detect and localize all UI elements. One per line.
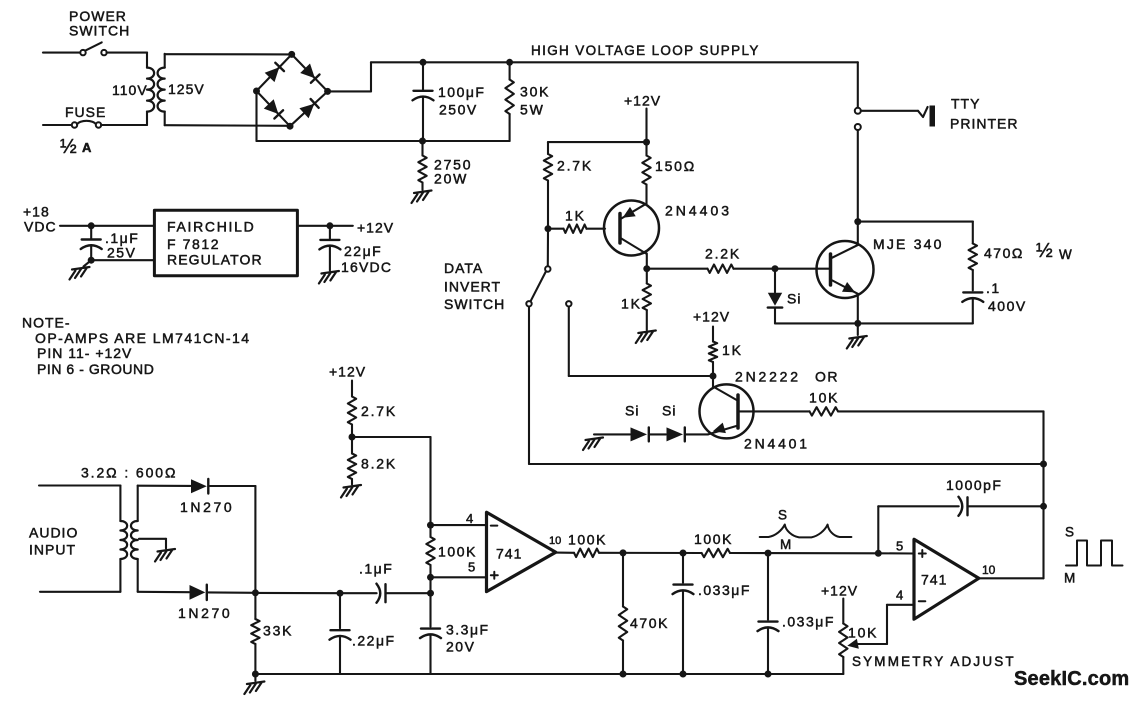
wire pin4 to op1 [431,524,487,526]
label .033uF 1 [698,582,751,598]
svg-text:+12V: +12V [357,220,394,236]
label .1 400V [986,280,1027,314]
transformer T2 secondary [131,486,138,592]
op-amp U2 741 [914,539,979,619]
svg-text:Si: Si [662,403,676,419]
svg-text:S: S [1065,525,1074,540]
ground under 22uF [319,271,339,284]
svg-text:INPUT: INPUT [29,542,76,558]
svg-text:Si: Si [625,403,639,419]
label 470K [630,615,669,631]
node .22uF top [337,590,344,597]
label 2.2K [705,246,741,262]
bridge diode D4 [299,99,318,118]
label 100K input [438,544,477,560]
svg-text:30K: 30K [520,84,550,100]
label HIGH VOLTAGE LOOP SUPPLY [531,43,760,58]
svg-text:10K: 10K [809,390,839,406]
svg-text:3.3μF: 3.3μF [446,622,490,638]
wire fb down [1042,506,1044,578]
node 470K bottom [620,671,627,678]
wire regulator output [297,225,352,227]
resistor 30K 5W [505,62,513,141]
wire pin4 op2 [887,605,914,644]
watermark SeekIC.com [1014,668,1129,690]
wire bridge left to lower bus [255,91,257,141]
node lower bus at 2750 [419,138,426,145]
node bridge right [324,88,331,95]
svg-text:2.7K: 2.7K [361,403,397,419]
label pin 10 op1 [549,535,561,547]
ground under MJE340 [847,336,867,349]
resistor 2.7K mid [348,381,356,438]
diode Si 1 [631,427,649,441]
wire bus node to ground [254,674,256,681]
node bridge left [253,88,260,95]
label S sawtooth [778,508,787,523]
label 150ohm [655,158,696,174]
svg-text:PRINTER: PRINTER [950,116,1018,132]
node 33K bottom [252,671,259,678]
svg-text:.033μF: .033μF [782,614,835,630]
label 100K 2 [694,531,733,547]
svg-text:150Ω: 150Ω [655,158,696,174]
label +12V pot [821,583,858,599]
jack J1 tip contact [855,108,861,114]
wire pin5 to op1 [431,576,487,578]
wire secondary bottom to D6 [138,591,189,594]
node 2N4403 collector [643,265,650,272]
node .033uF 2 bottom [765,671,772,678]
label Si shunt [787,291,801,307]
node MJE emitter ground [854,320,861,327]
svg-text:+12V: +12V [624,93,661,109]
wire D6 to junction [209,591,256,593]
resistor 470ohm 1/2W [969,222,977,291]
resistor 470K [619,553,627,674]
svg-text:NOTE-: NOTE- [22,315,71,331]
svg-text:100K: 100K [568,532,607,548]
wire node to ground [857,323,859,335]
svg-text:.033μF: .033μF [698,582,751,598]
resistor 33K [251,593,259,674]
label pin 5 [468,560,475,575]
svg-text:125V: 125V [168,81,205,97]
node bridge bottom [287,123,294,130]
svg-text:100K: 100K [694,531,733,547]
label DATA INVERT SWITCH [444,260,505,312]
svg-text:SWITCH: SWITCH [444,296,505,312]
node Si diode top [772,265,779,272]
svg-text:1N270: 1N270 [180,499,234,515]
label 1/2 A [60,136,92,158]
wire T1 secondary bottom to bridge [165,124,290,127]
wire AC hot in [43,52,80,54]
wire 1K node to switch contact [547,231,549,266]
wire wiper arrow [847,639,887,649]
label FUSE [65,104,106,120]
node HV at R 30K [506,59,513,66]
label 125V [168,81,205,97]
svg-text:741: 741 [921,572,947,588]
label AUDIO INPUT [29,525,78,558]
svg-text:10: 10 [982,563,996,577]
bottom ground bus [255,673,843,675]
wire op2 out [979,577,1044,579]
capacitor .22uF [330,593,351,674]
svg-text:100μF: 100μF [438,84,485,100]
label 1N270 bottom [178,605,232,621]
wire D5 to right rail [210,485,255,487]
fuse F1 [72,121,101,128]
wire node to 2.7K top [548,142,647,154]
node 150ohm top [643,139,650,146]
svg-text:8.2K: 8.2K [361,456,397,472]
svg-text:470K: 470K [630,615,669,631]
label 110V [112,82,148,98]
label 10K pot [848,625,878,641]
svg-text:33K: 33K [263,623,293,639]
svg-text:INVERT: INVERT [444,279,501,295]
wire cap bottom to regulator [91,259,154,261]
wire 1000pF up [877,506,879,553]
wire emitter bus [775,322,973,324]
jack J1 sleeve contact [855,124,861,130]
resistor 100K 2 [702,549,730,557]
ground center tap [155,549,175,562]
wire down to 1000pF node [1042,464,1044,506]
node 22uF top [326,222,333,229]
svg-text:2.7K: 2.7K [557,158,593,174]
svg-text:20W: 20W [434,171,468,187]
label 3.3uF 20V [446,622,490,655]
ground for Si diodes [583,438,603,451]
node detector junction [252,589,259,596]
svg-text:OP-AMPS ARE LM741CN-14: OP-AMPS ARE LM741CN-14 [35,330,251,346]
svg-text:3.2Ω : 600Ω: 3.2Ω : 600Ω [81,465,177,481]
label pin 4 op2 [896,588,903,603]
svg-text:Si: Si [787,291,801,307]
capacitor 22uF 16VDC [319,226,340,271]
wire ground to diode [594,433,630,435]
svg-text:1K: 1K [722,342,743,358]
wire pin5 into op2 [878,552,914,554]
svg-text:10: 10 [549,535,561,547]
svg-text:TTY: TTY [951,96,980,112]
bridge diode D1 [265,63,284,82]
node HV at C1 [420,59,427,66]
op-amp U1 741 [487,512,556,591]
node 2N2222 base [710,373,717,380]
capacitor 3.3uF 20V [420,593,441,674]
transformer T2 primary [120,486,127,592]
wire op1 out [556,552,574,554]
label M sawtooth [780,537,791,552]
switch S1 power switch [80,42,106,55]
node pin4 rail [427,522,434,529]
wire 100K2 to pin5 node [730,552,878,554]
label 1K to 2N2222 [722,342,743,358]
label SYMMETRY ADJUST [852,654,1016,669]
label pin 10 op2 [982,563,996,577]
label +18 VDC [23,204,57,235]
svg-text:M: M [780,537,791,552]
resistor 100K input [426,525,434,577]
ground under 8.2K [341,485,361,498]
svg-text:110V: 110V [112,82,148,98]
resistor 2.2K [647,265,775,273]
label 2.7K upper [557,158,593,174]
wire 1000pF left segment [878,505,958,507]
wire lower bus [257,140,510,142]
wire between Si diodes [650,433,666,435]
wire Si 2 to emitter [686,433,708,435]
svg-text:W: W [1059,247,1072,262]
label +12V at 1K [693,309,730,325]
bridge diode D2 [300,64,319,83]
diode Si shunt [768,269,782,324]
node M line [765,550,772,557]
label 8.2K [361,456,397,472]
label POWER SWITCH [69,8,130,39]
svg-text:M: M [1064,571,1075,586]
node 10K line at pole line [1040,461,1047,468]
resistor 1K to 2N2222 [709,327,717,377]
label +12V at 150ohm [624,93,661,109]
label 2750 20W [434,157,472,187]
svg-text:2N4401: 2N4401 [744,436,810,452]
transistor Q2 2N2222 [700,376,754,438]
label pin 4 [466,511,473,526]
label .1uF coupling [359,561,393,577]
svg-text:DATA: DATA [444,260,483,276]
wire switch to T1 primary [107,52,147,54]
label 33K [263,623,293,639]
diode Si 2 [667,427,685,441]
wire switch pole down [528,307,530,465]
square waveform [1066,541,1123,566]
svg-text:PIN 6 - GROUND: PIN 6 - GROUND [37,361,154,377]
capacitor .033uF 2 [758,553,779,674]
note text [22,315,251,378]
svg-text:5: 5 [896,539,903,554]
svg-text:A: A [82,140,92,155]
svg-text:.1μF: .1μF [359,561,393,577]
node pin5 op2 [875,550,882,557]
diode D5 1N270 [191,479,208,494]
svg-text:½: ½ [1036,240,1053,262]
capacitor .033uF 1 [673,553,694,674]
capacitor C1 100uF 250V [413,62,434,141]
node MJE340 collector [854,218,861,225]
node .033uF 1 top [680,550,687,557]
label pin 5 op2 [896,539,903,554]
svg-text:OR: OR [815,369,839,385]
svg-text:1000pF: 1000pF [946,477,1002,493]
label MJE 340 [873,236,944,252]
svg-text:1K: 1K [565,208,586,224]
wire fuse to T1 primary [101,124,147,126]
svg-text:4: 4 [466,511,473,526]
node pin5 rail [427,574,434,581]
node 1K base node [545,225,552,232]
jack J1 plug [861,106,935,127]
svg-text:5W: 5W [520,102,545,118]
ground under 33K [244,682,264,695]
svg-text:20V: 20V [446,639,475,655]
svg-text:MJE 340: MJE 340 [873,236,944,252]
wire divider to op1 rail [352,437,431,525]
capacitor .1uF 25V [81,226,102,260]
ground under 1K [636,331,656,344]
svg-text:100K: 100K [438,544,477,560]
wire pin5 rail down [429,577,431,593]
ground under 2750 [412,191,432,204]
label S square [1065,525,1074,540]
label 470ohm 1/2 W [984,240,1072,262]
transistor Q1 2N4403 [604,201,659,269]
wire jack to MJE340 collector [857,130,859,222]
label 10K feedback [809,390,839,406]
svg-text:SYMMETRY ADJUST: SYMMETRY ADJUST [852,654,1016,669]
wire right rail down [254,486,256,593]
svg-text:SeekIC.com: SeekIC.com [1014,668,1129,690]
wire node to ground stub [84,260,92,266]
resistor 10K feedback [754,407,1044,415]
node reg input cap bottom [88,257,95,264]
potentiometer 10K symmetry [839,599,847,675]
transformer T1 secondary 125V [158,54,165,125]
svg-text:S: S [778,508,787,523]
svg-text:REGULATOR: REGULATOR [167,252,263,268]
node 470K top [620,549,627,556]
ground at regulator input [70,267,90,280]
wire audio in top [39,484,120,486]
resistor 8.2K [348,437,356,485]
wire collector node to 470ohm [858,221,973,223]
wire center tap [139,539,166,549]
label 1K under 2N4403 [621,296,642,312]
label 1K base [565,208,586,224]
label Si 2 [662,403,676,419]
svg-text:HIGH VOLTAGE LOOP SUPPLY: HIGH VOLTAGE LOOP SUPPLY [531,43,760,58]
svg-text:+18: +18 [23,204,50,220]
capacitor .1 400V [962,292,983,323]
label +12V regulator out [357,220,394,236]
node .033uF 1 bottom [680,671,687,678]
resistor 2750 20W [418,141,426,190]
resistor 150ohm [642,142,650,204]
label TTY PRINTER [950,96,1018,132]
transistor Q3 MJE340 [775,222,874,324]
svg-text:10K: 10K [848,625,878,641]
svg-text:5: 5 [468,560,475,575]
svg-text:16VDC: 16VDC [341,259,392,275]
svg-text:½: ½ [60,136,77,158]
label 2N4403 [665,203,732,219]
svg-text:250V: 250V [439,102,478,118]
svg-text:SWITCH: SWITCH [69,23,130,39]
label 2N4401 [744,436,810,452]
label 1000pF [946,477,1002,493]
svg-text:4: 4 [896,588,903,603]
wire contact2 to 2N2222 base [569,375,713,377]
svg-text:1K: 1K [621,296,642,312]
label .1uF 25V [105,230,139,261]
regulator U3 Fairchild F7812 [154,210,297,275]
label Si 1 [625,403,639,419]
transformer T1 primary 110V [147,53,154,125]
wire +12V stub [645,109,647,143]
svg-text:470Ω: 470Ω [984,245,1024,261]
wire op1 out to 470K [599,552,702,554]
svg-text:PIN 11- +12V: PIN 11- +12V [37,345,132,361]
sawtooth waveform [760,525,852,538]
svg-text:25V: 25V [107,245,136,261]
capacitor 1000pF [959,497,1044,516]
svg-text:+12V: +12V [821,583,858,599]
svg-text:FAIRCHILD: FAIRCHILD [167,219,255,235]
label 100K op1 out [568,532,607,548]
bridge rectifier frame [257,54,328,126]
svg-text:1N270: 1N270 [178,605,232,621]
svg-text:VDC: VDC [24,219,57,235]
wire audio in bottom [40,591,120,593]
capacitor .1uF coupling [340,584,431,603]
label 30K 5W [520,84,550,118]
svg-text:+12V: +12V [693,309,730,325]
resistor 1K base [548,225,605,233]
wire switch contact2 down [568,307,570,377]
wire high voltage loop supply line [371,61,858,63]
svg-text:F 7812: F 7812 [167,236,220,252]
label M square [1064,571,1075,586]
wire 10K line down [1042,411,1044,464]
svg-text:2.2K: 2.2K [705,246,741,262]
switch S2 data invert [526,266,571,306]
wire T1 secondary top to bridge [165,53,292,55]
label .22uF [352,633,396,649]
label 22uF 16VDC [341,243,392,275]
wire pole line to 10K line [529,463,1044,465]
wire +18 in [60,225,154,227]
node divider [349,434,356,441]
svg-text:400V: 400V [988,298,1027,314]
label 100uF 250V [438,84,485,118]
label 2N2222 OR [735,369,839,385]
label 1N270 top [180,499,234,515]
svg-text:22μF: 22μF [344,243,382,259]
node reg input cap top [88,222,95,229]
svg-text:2N4403: 2N4403 [665,203,732,219]
node 1000pF right [1040,503,1047,510]
svg-text:+12V: +12V [329,364,366,380]
node op1 input junction [427,590,434,597]
resistor 100K op1 out [574,549,599,557]
svg-text:AUDIO: AUDIO [29,525,78,541]
label 3.2ohm : 600ohm [81,465,177,481]
wire HV down to jack [857,62,859,107]
svg-text:2N2222: 2N2222 [735,369,801,385]
wire AC neutral in [43,124,72,126]
resistor 2.7K upper [544,154,552,229]
svg-text:.22μF: .22μF [352,633,396,649]
node bridge top [288,51,295,58]
label +12V mid [329,364,366,380]
label .033uF 2 [782,614,835,630]
diode D6 1N270 [190,585,207,600]
resistor 1K under 2N4403 [643,269,651,330]
